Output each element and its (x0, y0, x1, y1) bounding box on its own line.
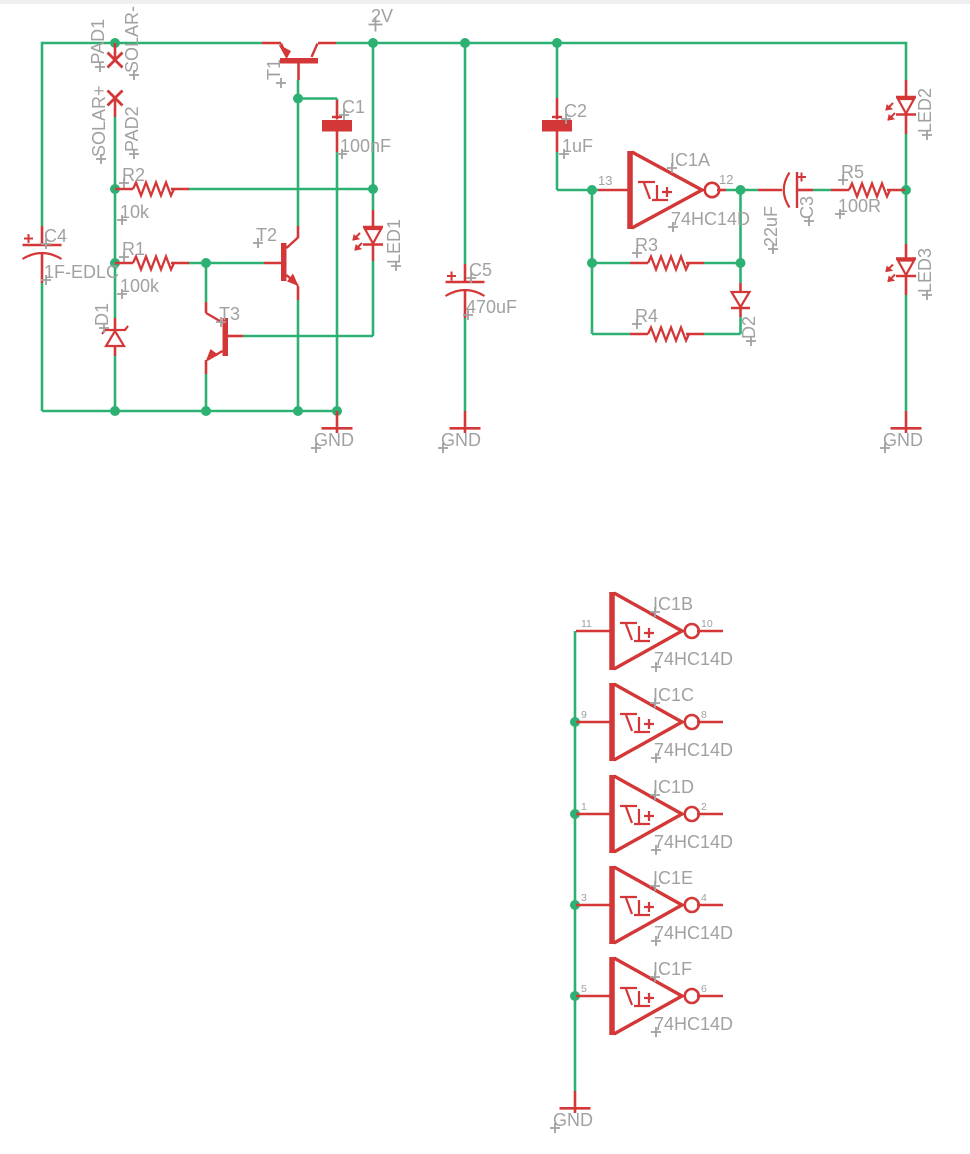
svg-text:470uF: 470uF (466, 297, 517, 317)
svg-text:R3: R3 (635, 235, 658, 255)
svg-text:IC1F: IC1F (653, 959, 692, 979)
node rail T3 emitter (201, 406, 211, 416)
node R1 right / T3 collector / T2 base (201, 258, 211, 268)
node R1 left on pad column (110, 258, 120, 268)
svg-text:1F-EDLC: 1F-EDLC (44, 262, 119, 282)
wire 2V column vertical (372, 43, 375, 189)
wire R1 output to T2 base (188, 262, 264, 265)
svg-text:PAD1: PAD1 (88, 19, 108, 65)
capacitor C2 top lead (556, 98, 559, 120)
svg-text:74HC14D: 74HC14D (654, 649, 733, 669)
op-amp IC1B output lead (697, 630, 723, 633)
LED2 bottom lead (905, 115, 908, 135)
svg-text:10k: 10k (120, 202, 150, 222)
svg-text:LED1: LED1 (384, 219, 404, 264)
node R5 right / LED2 / LED3 (901, 185, 911, 195)
svg-text:9: 9 (581, 709, 587, 721)
capacitor C3 right lead (797, 189, 813, 192)
capacitor C5 top lead (464, 264, 467, 282)
op-amp IC1C (609, 683, 615, 761)
svg-text:LED3: LED3 (915, 248, 935, 293)
svg-text:12: 12 (719, 172, 733, 187)
svg-text:2V: 2V (371, 6, 393, 26)
wire top rail right (2V net) (336, 42, 906, 45)
wire C2 to IC1A input (557, 189, 598, 192)
node R2 right / 2V / LED1 (368, 184, 378, 194)
op-amp IC1A input lead (598, 189, 630, 192)
LED2 top lead (905, 80, 908, 97)
svg-text:C2: C2 (564, 101, 587, 121)
wire T3 collector stub (205, 263, 208, 302)
svg-text:T1: T1 (264, 59, 284, 80)
transistor T3 emitter (207, 351, 223, 360)
svg-text:T3: T3 (219, 304, 240, 324)
svg-text:T2: T2 (256, 225, 277, 245)
capacitor C1 bottom lead (336, 132, 339, 153)
transistor T2 collector (287, 238, 299, 249)
node bus IC1F input (570, 991, 580, 1001)
diode D1 triangle (106, 331, 124, 346)
wire C3 to R5 (813, 189, 831, 192)
capacitor C3 arc plate (784, 173, 790, 208)
diode D2 cathode bar (731, 307, 750, 309)
svg-text:1: 1 (581, 801, 587, 813)
resistor R2 (115, 188, 133, 191)
svg-text:PAD2: PAD2 (122, 106, 142, 152)
wire bottom rail (GND) (42, 410, 337, 413)
svg-text:GND: GND (883, 430, 923, 450)
transistor T2 emitter arrow (287, 274, 299, 287)
LED2 symbol (896, 96, 916, 98)
svg-text:IC1D: IC1D (653, 777, 694, 797)
capacitor C4 plus (24, 234, 33, 243)
wire pad2 column (114, 117, 117, 318)
op-amp IC1A output lead (717, 189, 726, 192)
LED3 symbol (896, 257, 916, 259)
op-amp IC1E (609, 866, 615, 944)
diode D2 top lead (739, 283, 742, 292)
node rail T2 emitter (293, 406, 303, 416)
transistor T3 body (223, 318, 229, 356)
svg-text:R5: R5 (841, 162, 864, 182)
svg-text:11: 11 (581, 618, 592, 630)
capacitor C5 plus (447, 272, 456, 281)
svg-text:R1: R1 (122, 239, 145, 259)
wire R4 row left (592, 333, 630, 336)
op-amp IC1A (627, 151, 633, 229)
svg-text:2: 2 (701, 801, 707, 813)
svg-text:100nF: 100nF (340, 136, 391, 156)
diode D2 triangle (732, 292, 750, 307)
transistor T1 base lead (297, 64, 300, 81)
svg-text:74HC14D: 74HC14D (654, 1014, 733, 1034)
resistor R3 (630, 262, 648, 265)
wire T3 emitter to rail (205, 374, 208, 411)
svg-text:C1: C1 (342, 97, 365, 117)
capacitor C3 straight plate (796, 172, 798, 208)
transistor T3 emitter lead (205, 360, 208, 374)
wire left border vertical lower (41, 283, 44, 411)
svg-text:100k: 100k (120, 276, 160, 296)
diode D1 cathode bar (102, 326, 128, 334)
ground GND1 (336, 411, 339, 433)
svg-text:10: 10 (701, 618, 713, 630)
node R3 left lower (587, 258, 597, 268)
resistor R4 (630, 333, 648, 336)
top window band (0, 0, 970, 4)
op-amp IC1E output lead (697, 904, 723, 907)
wire R2 output to 2V column (188, 188, 373, 191)
capacitor C1 top lead (336, 100, 339, 120)
wire R3 row right (704, 262, 741, 265)
capacitor C1 plates (332, 116, 342, 118)
wire pad2 column lower (114, 356, 117, 411)
diode D2 bottom lead (739, 308, 742, 317)
transistor T2 body (281, 243, 287, 281)
LED3 bottom lead (905, 276, 908, 295)
node R3 right / D2 anode (736, 258, 746, 268)
capacitor C3 plus (797, 173, 806, 182)
wire T3 base row horizontal (243, 335, 373, 338)
svg-text:SOLAR-: SOLAR- (122, 6, 142, 73)
svg-text:IC1B: IC1B (653, 594, 693, 614)
svg-text:100R: 100R (838, 196, 881, 216)
LED1 top lead (372, 210, 375, 227)
transistor T1 collector lead (318, 42, 336, 45)
node 2V column on top rail (368, 38, 378, 48)
wire C5 column top (464, 43, 467, 264)
wire T2 emitter to rail (297, 300, 300, 411)
svg-text:R2: R2 (122, 165, 145, 185)
node pad1 on top rail (110, 38, 120, 48)
op-amp IC1F input lead (576, 995, 612, 998)
transistor T3 collector (205, 302, 208, 313)
wire LED3 to GND (905, 295, 908, 411)
svg-text:74HC14D: 74HC14D (654, 832, 733, 852)
capacitor C4 bottom lead (41, 252, 44, 283)
node IC1A output / C3 / D2 (736, 185, 746, 195)
svg-text:LED2: LED2 (915, 88, 935, 133)
op-amp IC1F (609, 957, 615, 1035)
transistor T2 emitter lead (297, 286, 300, 300)
op-amp IC1C output lead (697, 721, 723, 724)
wire D2 column bottom (739, 317, 742, 334)
transistor T1 emitter lead (262, 42, 281, 45)
svg-text:IC1A: IC1A (670, 150, 710, 170)
svg-text:C3: C3 (797, 196, 817, 219)
svg-text:IC1E: IC1E (653, 868, 693, 888)
diode D1 bottom lead (114, 346, 117, 356)
capacitor C2 plates (552, 116, 562, 118)
wire LED1 bottom to T3 base row (372, 261, 375, 336)
svg-text:C5: C5 (469, 260, 492, 280)
wire D2 column top (739, 190, 742, 283)
capacitor C5 bottom lead (464, 289, 467, 318)
transistor T1 emitter arrow (279, 45, 292, 60)
LED3 top lead (905, 244, 908, 259)
node rail C1 / GND (332, 406, 342, 416)
svg-text:IC1C: IC1C (653, 685, 694, 705)
capacitor C4 plates (23, 244, 62, 246)
node R2 left on pad column (110, 184, 120, 194)
transistor T1 body (280, 58, 318, 64)
svg-text:74HC14D: 74HC14D (654, 923, 733, 943)
wire C1 bottom to rail (336, 152, 339, 411)
node bus IC1C input (570, 717, 580, 727)
svg-text:GND: GND (553, 1110, 593, 1130)
svg-text:8: 8 (701, 709, 707, 721)
svg-text:5: 5 (581, 983, 587, 995)
svg-text:13: 13 (598, 173, 612, 188)
node bus IC1D input (570, 809, 580, 819)
pad PAD2 cross (108, 91, 123, 106)
wire T2 collector column (297, 99, 300, 227)
op-amp IC1E input lead (576, 904, 612, 907)
wire T1 base to C1 node (298, 97, 337, 100)
pad PAD1 lead (114, 43, 117, 60)
capacitor C4 top lead (41, 226, 44, 245)
transistor T3 base lead (228, 335, 243, 338)
capacitor C3 left lead (758, 189, 782, 192)
op-amp IC1F output lead (697, 995, 723, 998)
svg-text:SOLAR+: SOLAR+ (89, 85, 109, 157)
node rail pad column (110, 406, 120, 416)
svg-text:GND: GND (314, 430, 354, 450)
wire C2 bottom vertical (556, 152, 559, 190)
resistor R5 (831, 189, 849, 192)
svg-text:D2: D2 (739, 316, 759, 339)
wire LED1 top stub (372, 189, 375, 210)
wire left border vertical upper (41, 42, 44, 226)
svg-text:C4: C4 (44, 226, 67, 246)
wire IC1A output node (726, 189, 758, 192)
node T1 base / C1 / T2 collector (293, 94, 303, 104)
wire R4 row right (704, 333, 741, 336)
resistor R1 (115, 262, 133, 265)
pad PAD2 lead (114, 98, 117, 117)
node bus IC1E input (570, 900, 580, 910)
diode D1 top lead (114, 318, 117, 330)
wire R3 left vertical (591, 190, 594, 334)
svg-text:4: 4 (701, 892, 707, 904)
svg-text:3: 3 (581, 892, 587, 904)
LED1 bottom lead (372, 245, 375, 262)
transistor T2 base lead (264, 262, 281, 265)
node C5 on top rail (460, 38, 470, 48)
op-amp IC1D output lead (697, 813, 723, 816)
svg-text:1uF: 1uF (562, 136, 593, 156)
wire R3 row left (592, 262, 630, 265)
wire C2 column top (556, 43, 559, 98)
transistor T3 emitter arrow (206, 349, 219, 361)
wire C5 bottom to GND (464, 318, 467, 411)
LED1 symbol (363, 226, 383, 228)
op-amp IC1C input lead (576, 721, 612, 724)
svg-text:R4: R4 (635, 306, 658, 326)
ground GND4 (574, 1091, 577, 1113)
svg-text:D1: D1 (92, 303, 112, 326)
capacitor C5 plates (446, 281, 485, 283)
wire inverter input bus (574, 631, 577, 1091)
op-amp IC1B (609, 592, 615, 670)
transistor T2 emitter (287, 275, 299, 286)
ground GND3 (905, 411, 908, 433)
wire top rail left (SOLAR- net) (42, 42, 262, 45)
op-amp IC1D input lead (576, 813, 612, 816)
svg-text:GND: GND (441, 430, 481, 450)
capacitor C2 bottom lead (556, 132, 559, 153)
node C2 on top rail (552, 38, 562, 48)
node IC1A input / C2 / R3 (587, 185, 597, 195)
op-amp IC1D (609, 775, 615, 853)
ground GND2 (464, 411, 467, 433)
wire C1 top corner (336, 99, 339, 101)
svg-text:74HC14D: 74HC14D (671, 209, 750, 229)
svg-text:22uF: 22uF (761, 206, 781, 247)
wire right column top (905, 42, 908, 80)
wire LED2 to R5 node (905, 134, 908, 190)
wire R5 node to LED3 (905, 190, 908, 244)
svg-text:6: 6 (701, 983, 707, 995)
op-amp IC1B input lead (576, 630, 612, 633)
svg-text:74HC14D: 74HC14D (654, 740, 733, 760)
pad PAD1 cross (108, 53, 123, 68)
